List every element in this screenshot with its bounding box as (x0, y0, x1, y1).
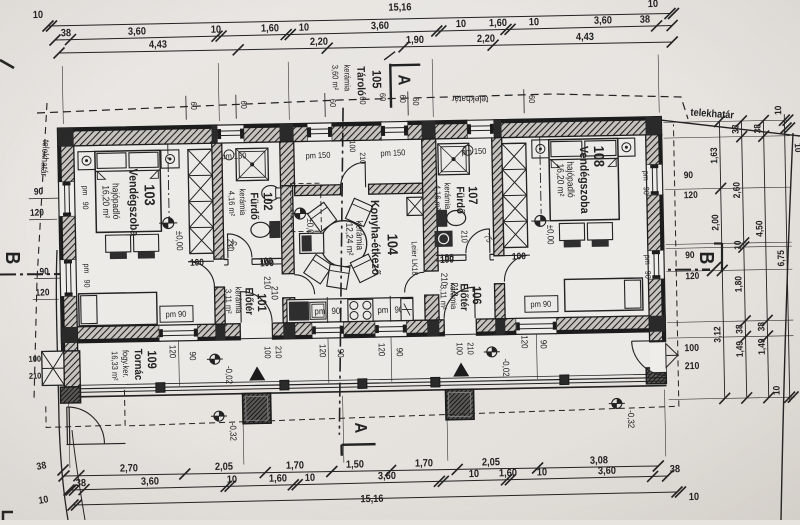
door arc foyer 106 to room 108 (504, 255, 530, 281)
page corner mark bottom-left (2, 511, 13, 514)
garden gate door with arc (66, 407, 69, 444)
window left wall lower (60, 260, 77, 296)
washbasin bath 102 (262, 185, 280, 200)
section marker A top (389, 64, 392, 108)
washbasin bath 107 (434, 231, 452, 247)
right dim ticks and labels colD 6,75 (779, 115, 790, 126)
wall exterior bottom (61, 325, 159, 343)
door arc bath 107 (465, 229, 489, 253)
watermark OC Otthon Centrum logo (382, 202, 438, 264)
window centerlines through porch (178, 341, 181, 386)
wall storage bottom (295, 185, 341, 196)
section line B-B horizontal (0, 270, 710, 275)
right dim ticks and labels colB (736, 115, 747, 126)
right dimension column lines (719, 121, 724, 398)
kitchen end cabinet (401, 298, 413, 320)
wall kitchen right / bath 107 (422, 139, 439, 271)
dashed area kitchen top-left (291, 183, 322, 232)
door arc entry 106 (444, 287, 476, 319)
nightstand left room 108 (532, 140, 549, 158)
entry door foyer 106 (444, 319, 476, 336)
entry door foyer 101 (240, 323, 272, 340)
section marker A bottom (342, 443, 376, 446)
wall junction dark blocks bottom (61, 327, 77, 343)
pm 90 box window W4 (525, 296, 558, 313)
window top wall x311 (312, 322, 343, 339)
wall bath 102 / foyer 101 (224, 258, 228, 260)
level mark +-0,00 kitchen (291, 208, 309, 219)
top dimension line 15,16 total (48, 14, 670, 27)
level mark +-0,00 room 108 (531, 215, 549, 226)
porch front edge lines (78, 378, 666, 389)
level mark -0,02 right porch (484, 347, 500, 357)
kitchen stove 4 burners (348, 299, 373, 321)
wall between room 108 and foyer/bath (492, 138, 504, 256)
wall between room 103 and bath 102 (212, 143, 224, 259)
wall exterior top (57, 125, 217, 146)
entry step right (446, 389, 475, 420)
bench room 108 bottom (564, 278, 643, 311)
boundary solid line bottom-left (56, 250, 68, 520)
centerline dash room 103 (168, 144, 169, 218)
bench room 103 bottom (79, 292, 158, 325)
building interior floor (57, 117, 665, 344)
chimney Leier LK18 (407, 197, 423, 215)
nightstand right room 103 (161, 150, 179, 168)
bed room 108 (549, 138, 620, 220)
window right wall lower (648, 251, 665, 279)
wardrobe room 103 X-cells (188, 149, 214, 253)
porch left corner pier (60, 387, 80, 403)
kitchen sink unit (289, 301, 309, 320)
window top wall x374 (375, 321, 406, 338)
right dimension extension lines (663, 120, 789, 122)
porch left end window with X (42, 351, 65, 385)
wardrobe room 108 X-cells (502, 143, 528, 247)
wall between bath 102 and storage/kitchen (280, 142, 295, 186)
door arc foyer 106 to kitchen (404, 272, 424, 292)
door arc porch right end (632, 340, 666, 343)
top dimension line segments 38/3,60/10/1,60 row (55, 26, 672, 41)
window left wall upper (58, 182, 75, 216)
door arc storage (340, 162, 365, 187)
right dim ticks and labels colA (714, 116, 725, 127)
shower bath 107 (438, 143, 470, 175)
extension lines from building to bottom dims (69, 401, 70, 468)
kitchen counter bottom (287, 297, 413, 322)
telekhatar solid boundary right (660, 120, 800, 136)
toilet bath 102 (269, 221, 280, 238)
level mark +-0,00 room 103 (159, 217, 177, 228)
section line A-A vertical (333, 108, 349, 435)
wall exterior right (646, 135, 663, 165)
entry arrow triangle left (249, 366, 265, 380)
entry arrow triangle right (453, 362, 469, 376)
telekhatar dashed boundary left (34, 103, 47, 400)
door arc bath 102 (227, 233, 251, 257)
dining table kitchen (320, 220, 367, 267)
bottom dimension total row 15,16 (73, 492, 677, 505)
window right wall upper (646, 165, 663, 195)
door arc foyer 101 to kitchen (294, 274, 314, 294)
wall exterior left (58, 146, 75, 182)
centerline dash room 108 (540, 137, 541, 214)
porch posts (156, 383, 165, 393)
porch left wall piece (64, 351, 81, 387)
porch floor (78, 332, 651, 391)
window top wall x470 (467, 120, 493, 138)
porch floor edge line upper (78, 374, 650, 385)
window top wall x515 (516, 318, 556, 335)
bottom dimension inner row 2,70/2,05/... (64, 466, 659, 476)
porch door swing triangles (666, 343, 678, 367)
door arc foyer 101 to room 103 (188, 261, 214, 287)
door arc entry 101 (241, 291, 273, 323)
page corner mark top-left (0, 60, 14, 68)
bed room 103 (95, 150, 162, 232)
section line B end tick (707, 262, 721, 276)
nightstand right room 108 (618, 138, 635, 156)
chairs around table (308, 202, 337, 232)
shower bath 102 (236, 148, 269, 181)
window top wall x384 (381, 121, 407, 139)
eaves dashed outline (120, 124, 679, 426)
bottom dimension row 38/3,60/10/1,60 (69, 476, 668, 490)
appliance kitchen left (299, 233, 323, 253)
porch door right wall (650, 342, 667, 373)
nightstand left room 103 (78, 151, 95, 169)
level mark -0,02 left porch (207, 354, 223, 364)
toilet bath 107 (436, 210, 447, 227)
porch right corner pier (646, 368, 666, 384)
pm 90 box window W1 (160, 306, 193, 323)
window top wall x220 (217, 125, 243, 143)
telekhatar boundary east edge (781, 133, 793, 520)
top dimension line 4,43/2,20/1,90 row (59, 42, 672, 53)
window top wall x310 (307, 123, 331, 141)
level mark -0,32 left ground (211, 411, 227, 421)
level mark -0,32 right ground (609, 398, 625, 408)
wall bath 107 / foyer 106 (436, 254, 466, 257)
stools room 108 (559, 223, 584, 240)
extension lines from building to top dims (62, 66, 63, 124)
entry step left (243, 393, 272, 424)
stools room 103 (105, 235, 130, 252)
telekhatar dashed boundary top (37, 94, 688, 119)
wall junction dark blocks top (57, 128, 73, 146)
right dim ticks and labels colC (758, 115, 769, 126)
window top wall x158 (159, 325, 197, 342)
